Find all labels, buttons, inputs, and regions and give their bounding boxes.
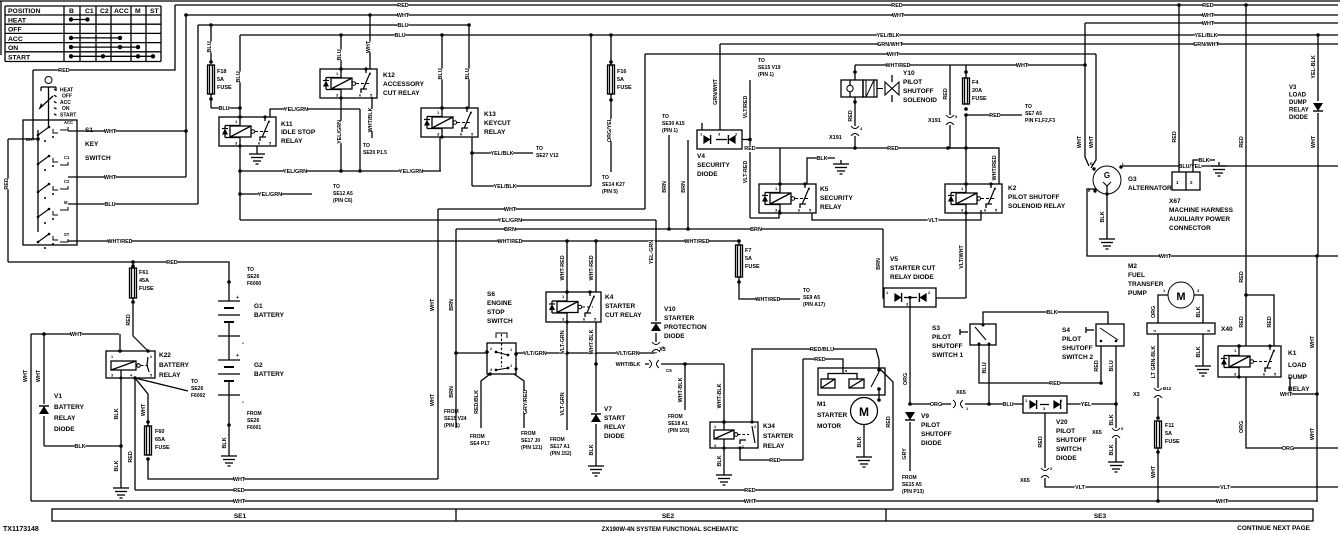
svg-text:K12: K12 [383,72,395,79]
svg-text:DIODE: DIODE [54,426,75,433]
svg-text:ACC: ACC [60,100,71,106]
wire YEL/GRN y194 to SE12 [240,193,312,195]
wire RED top bus [175,4,1338,6]
svg-text:GRN/WHT: GRN/WHT [877,42,903,48]
svg-text:YEL: YEL [1081,402,1092,408]
svg-text:SHUTOFF: SHUTOFF [1056,437,1087,444]
wire RED Y10 down [854,97,856,126]
svg-text:X65: X65 [956,390,966,396]
wire BLU drop to key switch M [197,25,199,204]
diode box V20 pilot shutoff switch diode [1023,396,1067,413]
svg-text:RED: RED [128,451,134,462]
battery G2 [228,336,230,360]
svg-text:FUSE: FUSE [139,286,154,292]
svg-text:ORG: ORG [1239,421,1245,433]
svg-text:BLU: BLU [218,106,229,112]
svg-text:FUSE: FUSE [745,264,760,270]
wire BLK K5 to ground [807,158,835,184]
svg-text:START: START [604,415,625,422]
wire RED bus y148 [756,147,999,149]
wire WHT mid bus y54 [645,53,1096,55]
svg-text:2: 2 [754,425,756,429]
svg-text:RED: RED [989,113,1000,119]
svg-text:K34: K34 [763,423,775,430]
svg-text:DUMP: DUMP [1288,374,1308,381]
svg-text:OFF: OFF [8,27,22,34]
wire BLU vertical x240 [239,35,241,117]
wire ORG/YEL F16 down to SE14 [610,94,612,172]
wire GRN/WHT bus [720,43,1338,45]
svg-text:RED: RED [126,314,132,325]
svg-text:V20: V20 [1056,419,1068,426]
svg-text:Y10: Y10 [903,70,915,77]
wire V4 to K5 pin3 [750,210,779,218]
wire RED K22 down to bus [134,378,136,490]
svg-text:BLU: BLU [337,49,343,60]
wire solenoid to motor [878,389,880,399]
fuse F18 [208,65,215,94]
svg-text:TO: TO [758,58,765,64]
wire WHT/RED to K2 [949,65,951,115]
svg-text:TO: TO [363,143,370,149]
wire RED to K5 pin1 [779,148,781,184]
svg-text:M: M [135,8,141,15]
svg-text:X191: X191 [928,118,941,124]
svg-text:S6: S6 [487,291,495,298]
fuse F60 [146,420,150,424]
svg-text:STARTER: STARTER [763,433,794,440]
svg-text:RED: RED [744,146,755,152]
svg-text:(PIN 152): (PIN 152) [550,451,572,457]
svg-text:BLU: BLU [1002,402,1013,408]
svg-text:FROM: FROM [521,431,536,437]
wire WHT riser x1085 [1085,23,1089,166]
svg-text:BAT: BAT [26,137,35,142]
wire WHT/BLK K12 pin5 down to SE20 [371,97,373,138]
svg-text:X3: X3 [1133,392,1140,398]
wire RED K34 out y460 [740,448,803,460]
wire WHT from S1 ACC [68,130,186,132]
svg-text:BRN: BRN [449,299,455,311]
page top border [0,0,1340,2]
svg-text:SE1: SE1 [234,513,247,520]
wire F61 diagonal into K22 [133,336,148,351]
svg-text:WHT: WHT [887,52,900,58]
wire BLK alternator ground [1106,194,1108,235]
svg-text:SE3: SE3 [1094,513,1107,520]
svg-text:STARTER: STARTER [605,303,636,310]
wire BLK S3 to S4 y312 [983,312,1108,324]
svg-text:WHT: WHT [1151,465,1157,478]
wire K11 pin3 down x240 [239,146,241,220]
svg-text:CUT RELAY: CUT RELAY [605,312,642,319]
svg-text:FUSE: FUSE [617,85,632,91]
svg-text:3: 3 [490,368,492,372]
wire WHT x1317 down [1316,256,1318,502]
svg-text:F6000: F6000 [247,281,261,287]
svg-text:WHT/BLK: WHT/BLK [368,107,374,132]
svg-text:VLT/GRN: VLT/GRN [523,351,546,357]
diode V1 battery relay diode [43,334,45,404]
svg-text:AUXILIARY POWER: AUXILIARY POWER [1169,216,1230,223]
svg-text:RED: RED [1094,360,1100,371]
svg-text:X40: X40 [1221,326,1233,333]
wire BLU S4 down [1115,346,1117,404]
svg-text:RED: RED [1267,316,1273,327]
svg-text:WHT: WHT [141,403,147,416]
wire WHT-RED K4 pin1 [566,241,568,292]
wire RED y262 battery feed [8,262,229,301]
svg-text:(PIN 121): (PIN 121) [521,445,543,451]
svg-text:SOLENOID RELAY: SOLENOID RELAY [1008,203,1066,210]
svg-text:BLU: BLU [207,41,213,52]
wire WHT.BLK x685 down [684,364,686,410]
svg-text:WHT: WHT [1310,427,1316,440]
svg-text:S4: S4 [1062,327,1070,334]
svg-text:ST: ST [64,232,70,237]
svg-text:WHT/RED: WHT/RED [497,239,522,245]
svg-text:B: B [1090,162,1093,166]
wire WHT-RED K4 pin2 [595,241,597,292]
svg-text:VLT: VLT [1075,485,1085,491]
wire YEL/BLK bus [240,34,1338,36]
svg-text:CONTINUE NEXT PAGE: CONTINUE NEXT PAGE [1237,525,1310,532]
svg-text:BLK: BLK [857,436,863,447]
svg-text:GRY/RED: GRY/RED [523,390,529,414]
svg-text:FROM: FROM [470,434,485,440]
svg-text:+: + [236,353,239,359]
wire BLU F18 to K11 [211,107,240,109]
svg-text:HEAT: HEAT [60,88,73,94]
connector X191 right [946,115,954,118]
svg-text:BATTERY: BATTERY [254,312,285,319]
wire VLT K5 out [812,210,981,220]
S1 internal contacts [37,130,39,232]
svg-text:TO: TO [602,175,609,181]
wire WHT-BLK to K34 [723,364,725,422]
fuse F16 [609,33,613,37]
svg-text:SE15 A5: SE15 A5 [902,482,922,488]
svg-text:+: + [236,295,239,301]
svg-text:65A: 65A [155,437,165,443]
wire VLT bus [1045,478,1338,487]
svg-text:PROTECTION: PROTECTION [664,324,707,331]
connector X67 machine harness [1178,5,1180,172]
svg-text:SE4 P17: SE4 P17 [470,441,490,447]
svg-text:SE17 J0: SE17 J0 [521,438,540,444]
svg-text:TO: TO [536,146,543,152]
svg-text:RELAY: RELAY [54,415,76,422]
svg-text:WHT: WHT [1202,21,1215,27]
svg-text:STARTER: STARTER [664,315,695,322]
svg-text:MACHINE HARNESS: MACHINE HARNESS [1169,207,1234,214]
wire RED F4 to SE7 [966,114,1022,116]
svg-text:FUSE: FUSE [217,85,232,91]
svg-text:SECURITY: SECURITY [820,195,854,202]
diode box V4 security diode [697,130,742,149]
svg-text:5A: 5A [745,256,752,262]
svg-text:WHT: WHT [36,369,42,382]
wire WHT right top bus [1085,22,1338,24]
wire YEL V20 to S4 [1067,403,1116,405]
wire BLK X67 to ground [1193,160,1215,172]
svg-text:WHT-BLK: WHT-BLK [717,383,723,408]
svg-text:POSITION: POSITION [8,8,41,15]
svg-text:FUSE: FUSE [1165,439,1180,445]
svg-text:RELAY: RELAY [1289,108,1309,114]
wire YEL/GRN K11 pin2 up [270,109,360,117]
wire RED pair to K1 [1246,295,1274,346]
svg-text:RELAY: RELAY [281,138,303,145]
svg-text:TO: TO [662,114,669,120]
svg-text:WHT: WHT [744,499,757,505]
wire WHT bottom bus y501 [31,500,1317,502]
svg-text:RED: RED [4,178,10,189]
svg-text:BLK: BLK [1046,310,1057,316]
svg-text:1: 1 [510,348,512,352]
svg-text:DIODE: DIODE [664,333,685,340]
svg-text:K1: K1 [1288,350,1297,357]
svg-text:PILOT SHUTOFF: PILOT SHUTOFF [1008,194,1060,201]
svg-text:KEYCUT: KEYCUT [484,120,511,127]
svg-text:M: M [859,405,869,419]
relay K34 starter relay [710,422,758,448]
svg-text:RED: RED [397,3,408,9]
svg-text:RED: RED [891,3,902,9]
wire ORG K1 down [1246,377,1338,448]
svg-text:BLK: BLK [589,444,595,455]
wire BLU K13 pin1 [441,35,443,108]
svg-text:1: 1 [111,355,113,359]
wire GRY/RED S6 down [514,374,524,428]
svg-text:RED: RED [1202,3,1213,9]
svg-text:RED: RED [58,68,69,74]
svg-text:G: G [1104,171,1110,180]
svg-text:K11: K11 [281,121,293,128]
wire VLT/WHT K2 pin3 down [965,213,967,298]
wire BLU F18 drop [210,25,212,62]
relay K11 idle stop relay [219,117,276,146]
svg-text:LT GRN-BLK: LT GRN-BLK [1151,346,1157,379]
svg-text:5A: 5A [217,77,224,83]
svg-text:VLT: VLT [1220,485,1230,491]
connector X65 2 [1041,468,1049,471]
connector X191 left [851,126,859,129]
svg-text:G1: G1 [254,303,263,310]
svg-text:-: - [242,341,244,347]
wire VLT/GRN y353 [516,352,655,354]
ground K5 [840,160,842,164]
svg-text:ORG/YEL: ORG/YEL [607,117,613,142]
wire RED x1246 down to K1 [1245,5,1247,295]
ground below X65 [1115,458,1117,462]
svg-text:HEAT: HEAT [8,18,27,25]
svg-text:BLK: BLK [717,455,723,466]
wire YEL/BLK y186 [472,185,591,187]
svg-text:START: START [60,112,76,118]
svg-text:BATTERY: BATTERY [54,404,85,411]
svg-text:(PIN A17): (PIN A17) [803,302,825,308]
svg-text:RELAY: RELAY [484,129,506,136]
relay K22 battery relay [119,334,121,351]
svg-text:START: START [8,54,31,61]
svg-text:SE2: SE2 [662,513,675,520]
svg-text:WHT: WHT [430,393,436,406]
svg-text:K2: K2 [1008,185,1017,192]
svg-text:SE26: SE26 [247,274,259,280]
svg-text:(PIN 1): (PIN 1) [444,423,460,429]
svg-text:RED: RED [886,416,892,427]
wire BRN down from S6 to SE15 [455,353,457,428]
svg-text:SECURITY: SECURITY [697,162,731,169]
wire BLK bus y446 [44,445,121,447]
svg-text:RED: RED [769,458,780,464]
svg-text:ORG: ORG [930,402,942,408]
alternator G3 circle [1093,166,1121,194]
svg-text:RED: RED [814,357,825,363]
svg-text:BLU: BLU [397,23,408,29]
svg-text:YEL/BLK: YEL/BLK [1194,33,1217,39]
svg-text:YEL/GRN: YEL/GRN [498,218,522,224]
key switch S1 box [23,120,77,245]
svg-text:SE15 V19: SE15 V19 [758,65,781,71]
wire BRN S6 feed [455,229,457,354]
svg-text:V5: V5 [890,256,898,263]
svg-text:YEL/GRN: YEL/GRN [284,107,308,113]
svg-text:STARTER CUT: STARTER CUT [890,265,935,272]
svg-text:SE27 V12: SE27 V12 [536,153,559,159]
svg-text:c: c [742,445,744,449]
svg-text:F6002: F6002 [191,393,205,399]
svg-text:WHT: WHT [1202,13,1215,19]
svg-text:WHT-BLK: WHT-BLK [678,377,684,402]
svg-text:WHT: WHT [1089,135,1095,148]
svg-text:WHT: WHT [1159,254,1172,260]
svg-text:KEY: KEY [85,141,99,148]
connector X40 [1147,323,1215,334]
table contacts ON row [71,46,138,48]
wire BLU bus [198,24,469,26]
motor M1 starter motor [851,398,878,425]
svg-text:PILOT: PILOT [903,79,922,86]
svg-text:STARTER: STARTER [817,412,848,419]
svg-text:WHT: WHT [1280,392,1293,398]
svg-text:DIODE: DIODE [1289,115,1308,121]
svg-text:WHT: WHT [892,13,905,19]
svg-text:-: - [242,400,244,406]
svg-text:BLU: BLU [438,68,444,79]
svg-text:SHUTOFF: SHUTOFF [1062,345,1093,352]
wire YEL/GRN y171 [240,170,441,172]
connector X65 5 [1112,428,1120,431]
svg-text:WHT: WHT [1310,335,1316,348]
svg-text:WHT: WHT [504,207,517,213]
svg-text:WHT: WHT [1311,135,1317,148]
svg-text:SE14 K27: SE14 K27 [602,182,625,188]
svg-text:SHUTOFF: SHUTOFF [903,88,934,95]
svg-text:YEL/GRN: YEL/GRN [258,192,282,198]
wire WHT K1 out [1290,377,1317,394]
svg-text:F16: F16 [617,69,626,75]
svg-text:RED: RED [1239,316,1245,327]
svg-text:BLK: BLK [1196,346,1202,357]
svg-text:2: 2 [150,355,152,359]
svg-text:YEL/GRN: YEL/GRN [283,169,307,175]
svg-text:TRANSFER: TRANSFER [1128,281,1164,288]
wire RED y359 to solenoid [803,359,843,373]
svg-text:PILOT: PILOT [932,334,951,341]
svg-text:BATTERY: BATTERY [159,362,190,369]
svg-text:FROM: FROM [247,411,262,417]
svg-text:YEL-GRN: YEL-GRN [649,240,655,264]
svg-text:BLU: BLU [465,68,471,79]
svg-text:ACCESSORY: ACCESSORY [383,81,425,88]
svg-text:YEL/BLK: YEL/BLK [490,151,513,157]
wire WHT riser x645 [644,54,646,209]
svg-text:BRN: BRN [504,227,516,233]
svg-text:SHUTOFF: SHUTOFF [932,343,963,350]
svg-text:SHUTOFF: SHUTOFF [921,431,952,438]
svg-text:VLT-RED: VLT-RED [743,161,749,184]
svg-text:RED: RED [1239,136,1245,147]
svg-text:GRY: GRY [902,448,908,460]
wire BRN V4 [687,140,689,229]
svg-text:G2: G2 [254,362,263,369]
svg-text:DUMP: DUMP [1289,100,1307,106]
solenoid Y10 pilot shutoff solenoid [854,65,856,80]
svg-text:VLT/WHT: VLT/WHT [959,244,965,268]
svg-text:LOAD: LOAD [1289,93,1307,99]
wire to K2 contact [948,148,999,184]
svg-text:RED: RED [848,110,854,121]
svg-text:ALTERNATOR: ALTERNATOR [1128,185,1172,192]
relay K1 load dump relay [1218,346,1281,377]
svg-text:STOP: STOP [487,309,505,316]
svg-text:F11: F11 [1165,423,1174,429]
wire BLK M1 to ground [863,425,865,454]
fuse F7 [737,239,741,243]
svg-text:(PIN P13): (PIN P13) [902,489,924,495]
svg-text:FROM: FROM [444,409,459,415]
svg-text:F60: F60 [155,429,164,435]
wire WHT/BLK y364 через X3 C5 [617,362,639,368]
svg-text:FROM: FROM [550,437,565,443]
svg-text:VLT-GRN: VLT-GRN [560,392,566,415]
svg-text:BLU: BLU [982,362,988,373]
svg-text:RELAY: RELAY [820,204,842,211]
svg-text:WHT: WHT [1077,135,1083,148]
svg-text:V9: V9 [921,413,929,420]
svg-text:YEL/BLK: YEL/BLK [876,33,899,39]
svg-text:RELAY DIODE: RELAY DIODE [890,274,934,281]
wire RED/BLK S6 down [481,374,490,428]
svg-text:GRN/WHT: GRN/WHT [713,78,719,104]
wire WHT top bus [187,14,1338,16]
wire RED x803 down [802,359,804,460]
svg-text:WHT/RED: WHT/RED [684,239,709,245]
svg-text:K5: K5 [820,186,829,193]
svg-text:IDLE STOP: IDLE STOP [281,129,316,136]
svg-text:BRN: BRN [449,386,455,398]
svg-text:BLK: BLK [816,156,827,162]
wire RED solenoid contact to bottom bus [879,368,893,490]
svg-text:RED: RED [943,88,949,99]
svg-text:PILOT: PILOT [921,422,940,429]
svg-text:RED/BLK: RED/BLK [474,390,480,414]
svg-text:TO: TO [247,267,254,273]
svg-text:WHT: WHT [366,40,372,53]
diode V10 starter protection diode [651,323,661,331]
